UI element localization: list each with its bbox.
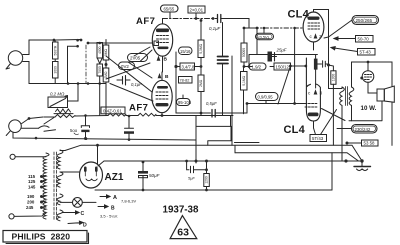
oval meter 0,9/0,95	[256, 93, 279, 104]
phono input P1	[6, 119, 55, 136]
wire aerial to coil	[23, 40, 29, 84]
svg-text:7,8-6,3V: 7,8-6,3V	[121, 199, 136, 204]
svg-text:D: D	[83, 223, 87, 229]
heater pin C	[62, 211, 85, 217]
wire bus y83.5	[29, 83, 106, 85]
leader to oval	[324, 20, 352, 38]
pin marker A/B upper	[157, 56, 168, 63]
svg-text:3,4/7,8: 3,4/7,8	[182, 65, 195, 70]
svg-text:PHILIPS 2820: PHILIPS 2820	[12, 232, 71, 242]
svg-text:3000: 3000	[53, 66, 57, 74]
wire riser x196	[195, 116, 197, 164]
svg-text:78-82: 78-82	[180, 78, 190, 83]
wire bus B	[235, 153, 359, 161]
potentiometer R-vol 0.2M	[48, 84, 78, 114]
transformer TR1 core	[54, 152, 57, 220]
wire TR2 primary bottom	[341, 106, 343, 162]
mains terminal T1	[10, 154, 46, 159]
svg-text:5μF: 5μF	[188, 176, 195, 181]
svg-text:50-70: 50-70	[358, 37, 370, 42]
valve V4 CL4 lower	[305, 58, 323, 128]
svg-text:95-105: 95-105	[178, 100, 192, 105]
vertical anode link x176	[175, 52, 177, 113]
transformer TR1 secondary fil3	[57, 210, 63, 221]
svg-text:1MΩ: 1MΩ	[104, 71, 108, 79]
wire heater line H1	[13, 133, 196, 141]
svg-text:2MΩ: 2MΩ	[199, 79, 203, 87]
svg-text:4000: 4000	[98, 46, 102, 54]
wire dash-dot gang line	[85, 45, 87, 84]
node x106	[105, 63, 108, 66]
symbol triangle 63	[170, 216, 197, 239]
transformer TR1 secondary fil2	[57, 194, 63, 205]
svg-text:C: C	[81, 211, 85, 217]
rectifier AZ1	[60, 151, 103, 189]
svg-text:0,1μF: 0,1μF	[131, 82, 142, 87]
svg-text:3: 3	[319, 34, 322, 39]
leader cross wires	[106, 56, 153, 101]
svg-text:1300: 1300	[332, 74, 336, 82]
svg-text:2V05: 2V05	[130, 56, 141, 61]
transformer TR1 secondary HT	[57, 150, 63, 169]
svg-text:250/265: 250/265	[356, 18, 373, 23]
oval meter 0V2	[119, 62, 135, 70]
svg-text:500TR: 500TR	[53, 45, 57, 56]
svg-text:15/16: 15/16	[180, 49, 191, 54]
svg-text:3MΩ: 3MΩ	[104, 48, 108, 56]
resistor R11 vertical	[204, 161, 210, 191]
wire to CL4-2 grid	[247, 104, 306, 114]
output transformer TR2 secondary	[349, 87, 354, 105]
heater pin B	[98, 205, 118, 219]
resistor R5 vertical	[198, 19, 204, 116]
tap label 115	[26, 174, 36, 210]
wire mid verticals	[231, 56, 233, 145]
transformer TR1 secondary fil1	[57, 172, 63, 187]
svg-text:5T-43: 5T-43	[360, 50, 372, 55]
wire grid line to AF7	[88, 42, 152, 44]
svg-text:1937-38: 1937-38	[163, 205, 200, 216]
wire riser x332	[331, 153, 333, 190]
svg-text:53 58: 53 58	[364, 141, 376, 146]
svg-text:0,1μF: 0,1μF	[209, 26, 221, 31]
capacitor C-grid 0,1uF	[117, 76, 142, 88]
svg-text:CL4: CL4	[284, 124, 306, 136]
capacitor C-coupl 0,1uF	[209, 15, 222, 32]
wire AF bus y115	[44, 116, 233, 118]
capacitor C6	[125, 116, 134, 140]
svg-text:190: 190	[27, 194, 35, 199]
nameplate PHILIPS 2820	[3, 231, 89, 244]
capacitor C25uF	[268, 48, 287, 62]
resistor R9 vertical	[241, 67, 248, 114]
resistor R2	[55, 115, 75, 118]
wire B+ bus y162	[98, 161, 362, 166]
svg-text:25μF: 25μF	[276, 48, 287, 53]
svg-text:1200: 1200	[205, 176, 209, 184]
leader lines V1 pins	[134, 47, 152, 62]
svg-text:B: B	[165, 74, 169, 80]
oval meter 0,5V	[256, 27, 274, 40]
wire top bus	[29, 39, 54, 41]
wire TR2 secondary to loop	[351, 62, 353, 121]
box label 50-70	[334, 36, 373, 43]
oval meter 1,9/2	[249, 63, 266, 70]
resistor R3	[108, 113, 126, 116]
svg-text:0,2 MΩ: 0,2 MΩ	[50, 92, 65, 97]
svg-text:65/65: 65/65	[164, 7, 175, 12]
wire bus y190	[95, 189, 332, 191]
svg-text:3: 3	[320, 91, 323, 96]
resistor R6 vertical	[241, 28, 247, 67]
svg-text:0,9/0,95: 0,9/0,95	[258, 95, 274, 100]
svg-text:1,9/2: 1,9/2	[252, 64, 262, 69]
coil L2	[53, 62, 59, 84]
capacitor C50uF	[138, 161, 161, 190]
output transformer TR2 core	[346, 87, 348, 106]
svg-text:10 W.: 10 W.	[361, 105, 377, 112]
svg-text:0,3MΩ: 0,3MΩ	[199, 43, 203, 53]
oval meter 95-105	[177, 95, 192, 106]
ground	[354, 161, 371, 171]
svg-text:5T/43: 5T/43	[312, 136, 324, 141]
svg-text:B: B	[164, 57, 168, 63]
aerial input terminal	[6, 51, 23, 69]
transformer TR1 primary	[43, 153, 49, 219]
valve V1 AF7	[152, 19, 172, 73]
oval meter 15/16	[179, 47, 193, 55]
wire to CL4 grid	[222, 19, 254, 29]
box label 0,42-0,61	[101, 107, 125, 114]
svg-text:0,5μF: 0,5μF	[206, 101, 217, 106]
coil L1	[53, 40, 59, 61]
svg-text:0,4Z-0,61: 0,4Z-0,61	[103, 108, 122, 113]
svg-text:B: B	[111, 206, 115, 212]
svg-text:AF7: AF7	[136, 16, 155, 27]
wire anode V2 to coupling	[176, 112, 195, 114]
capacitor C5x	[70, 114, 90, 140]
svg-text:230/242: 230/242	[355, 127, 371, 132]
leader anode to transformer	[278, 66, 345, 121]
valve V2 AF7	[152, 72, 172, 117]
resistor R10 vertical	[329, 65, 337, 145]
svg-text:50000: 50000	[242, 48, 246, 57]
svg-text:0V2: 0V2	[121, 64, 129, 69]
node phono	[28, 117, 31, 120]
trimmer bracket	[68, 46, 77, 83]
resistor R8 vertical	[103, 60, 109, 116]
loudspeaker LS	[377, 86, 394, 102]
svg-text:(0,5V): (0,5V)	[258, 34, 269, 39]
svg-text:200: 200	[27, 200, 35, 205]
switch S2	[29, 117, 54, 124]
pilot lamp LP	[60, 198, 96, 208]
node ground junction	[344, 159, 347, 162]
tap wires	[42, 176, 47, 208]
box label 2x 0,01	[188, 6, 205, 19]
wire TR2 primary top	[329, 87, 343, 89]
svg-text:50μF: 50μF	[149, 173, 161, 178]
field coil F	[360, 61, 377, 93]
tap dots	[40, 175, 43, 209]
resistor R4	[138, 113, 156, 116]
resistor R7 vertical	[103, 40, 109, 61]
wire y66 line	[244, 65, 306, 68]
node switch S1	[53, 39, 56, 42]
switch contact	[56, 39, 80, 42]
heater pin A	[100, 195, 136, 204]
capacitor C-block	[218, 23, 229, 116]
capacitor C-k2	[314, 42, 331, 88]
valve V3 CL4 upper	[303, 10, 324, 43]
svg-text:245: 245	[26, 205, 34, 210]
svg-text:0,1MΩ: 0,1MΩ	[242, 75, 246, 85]
speaker loop	[349, 62, 392, 145]
wire anode line y18.5	[163, 18, 217, 20]
mains terminal T2	[9, 213, 46, 219]
svg-text:7000: 7000	[98, 66, 102, 74]
box label 3,4/7,8	[180, 63, 202, 70]
heater pin D	[68, 221, 87, 228]
svg-text:5oo: 5oo	[70, 128, 78, 133]
svg-text:3,5 - 5¼V.: 3,5 - 5¼V.	[100, 214, 118, 219]
wire bus A heaters	[65, 121, 392, 161]
capacitor C-coupl2	[206, 101, 247, 117]
node y66 junction	[243, 65, 246, 68]
box label ST/43	[310, 110, 337, 142]
box label ST-43	[331, 47, 375, 55]
wire y66 left part	[176, 66, 180, 68]
svg-text:2×0,01: 2×0,01	[190, 8, 204, 13]
box label 0,78-0,82	[179, 77, 193, 84]
node grid line	[98, 42, 101, 45]
box label 150/12	[274, 63, 291, 70]
capacitor C8	[185, 160, 206, 181]
pin marker A/B lower	[158, 73, 169, 80]
oval meter 250/265	[352, 16, 379, 25]
coil L3	[97, 43, 103, 116]
svg-text:A: A	[113, 195, 117, 201]
output transformer TR2 primary	[340, 87, 345, 105]
svg-text:63: 63	[177, 226, 189, 238]
oval meter 230/242	[337, 125, 377, 134]
oval meter 2V05	[128, 54, 148, 62]
svg-text:AZ1: AZ1	[105, 172, 124, 183]
svg-text:AF7: AF7	[129, 103, 148, 114]
svg-text:125: 125	[28, 179, 36, 184]
junction box	[196, 126, 259, 145]
cathode circuit V3	[249, 28, 317, 67]
svg-text:CL4: CL4	[288, 9, 310, 21]
box label 53-58	[346, 140, 379, 146]
wire anode top run	[314, 10, 329, 89]
svg-text:150/12: 150/12	[276, 65, 290, 70]
oval meter 65/65	[161, 5, 179, 19]
svg-text:145: 145	[28, 185, 36, 190]
